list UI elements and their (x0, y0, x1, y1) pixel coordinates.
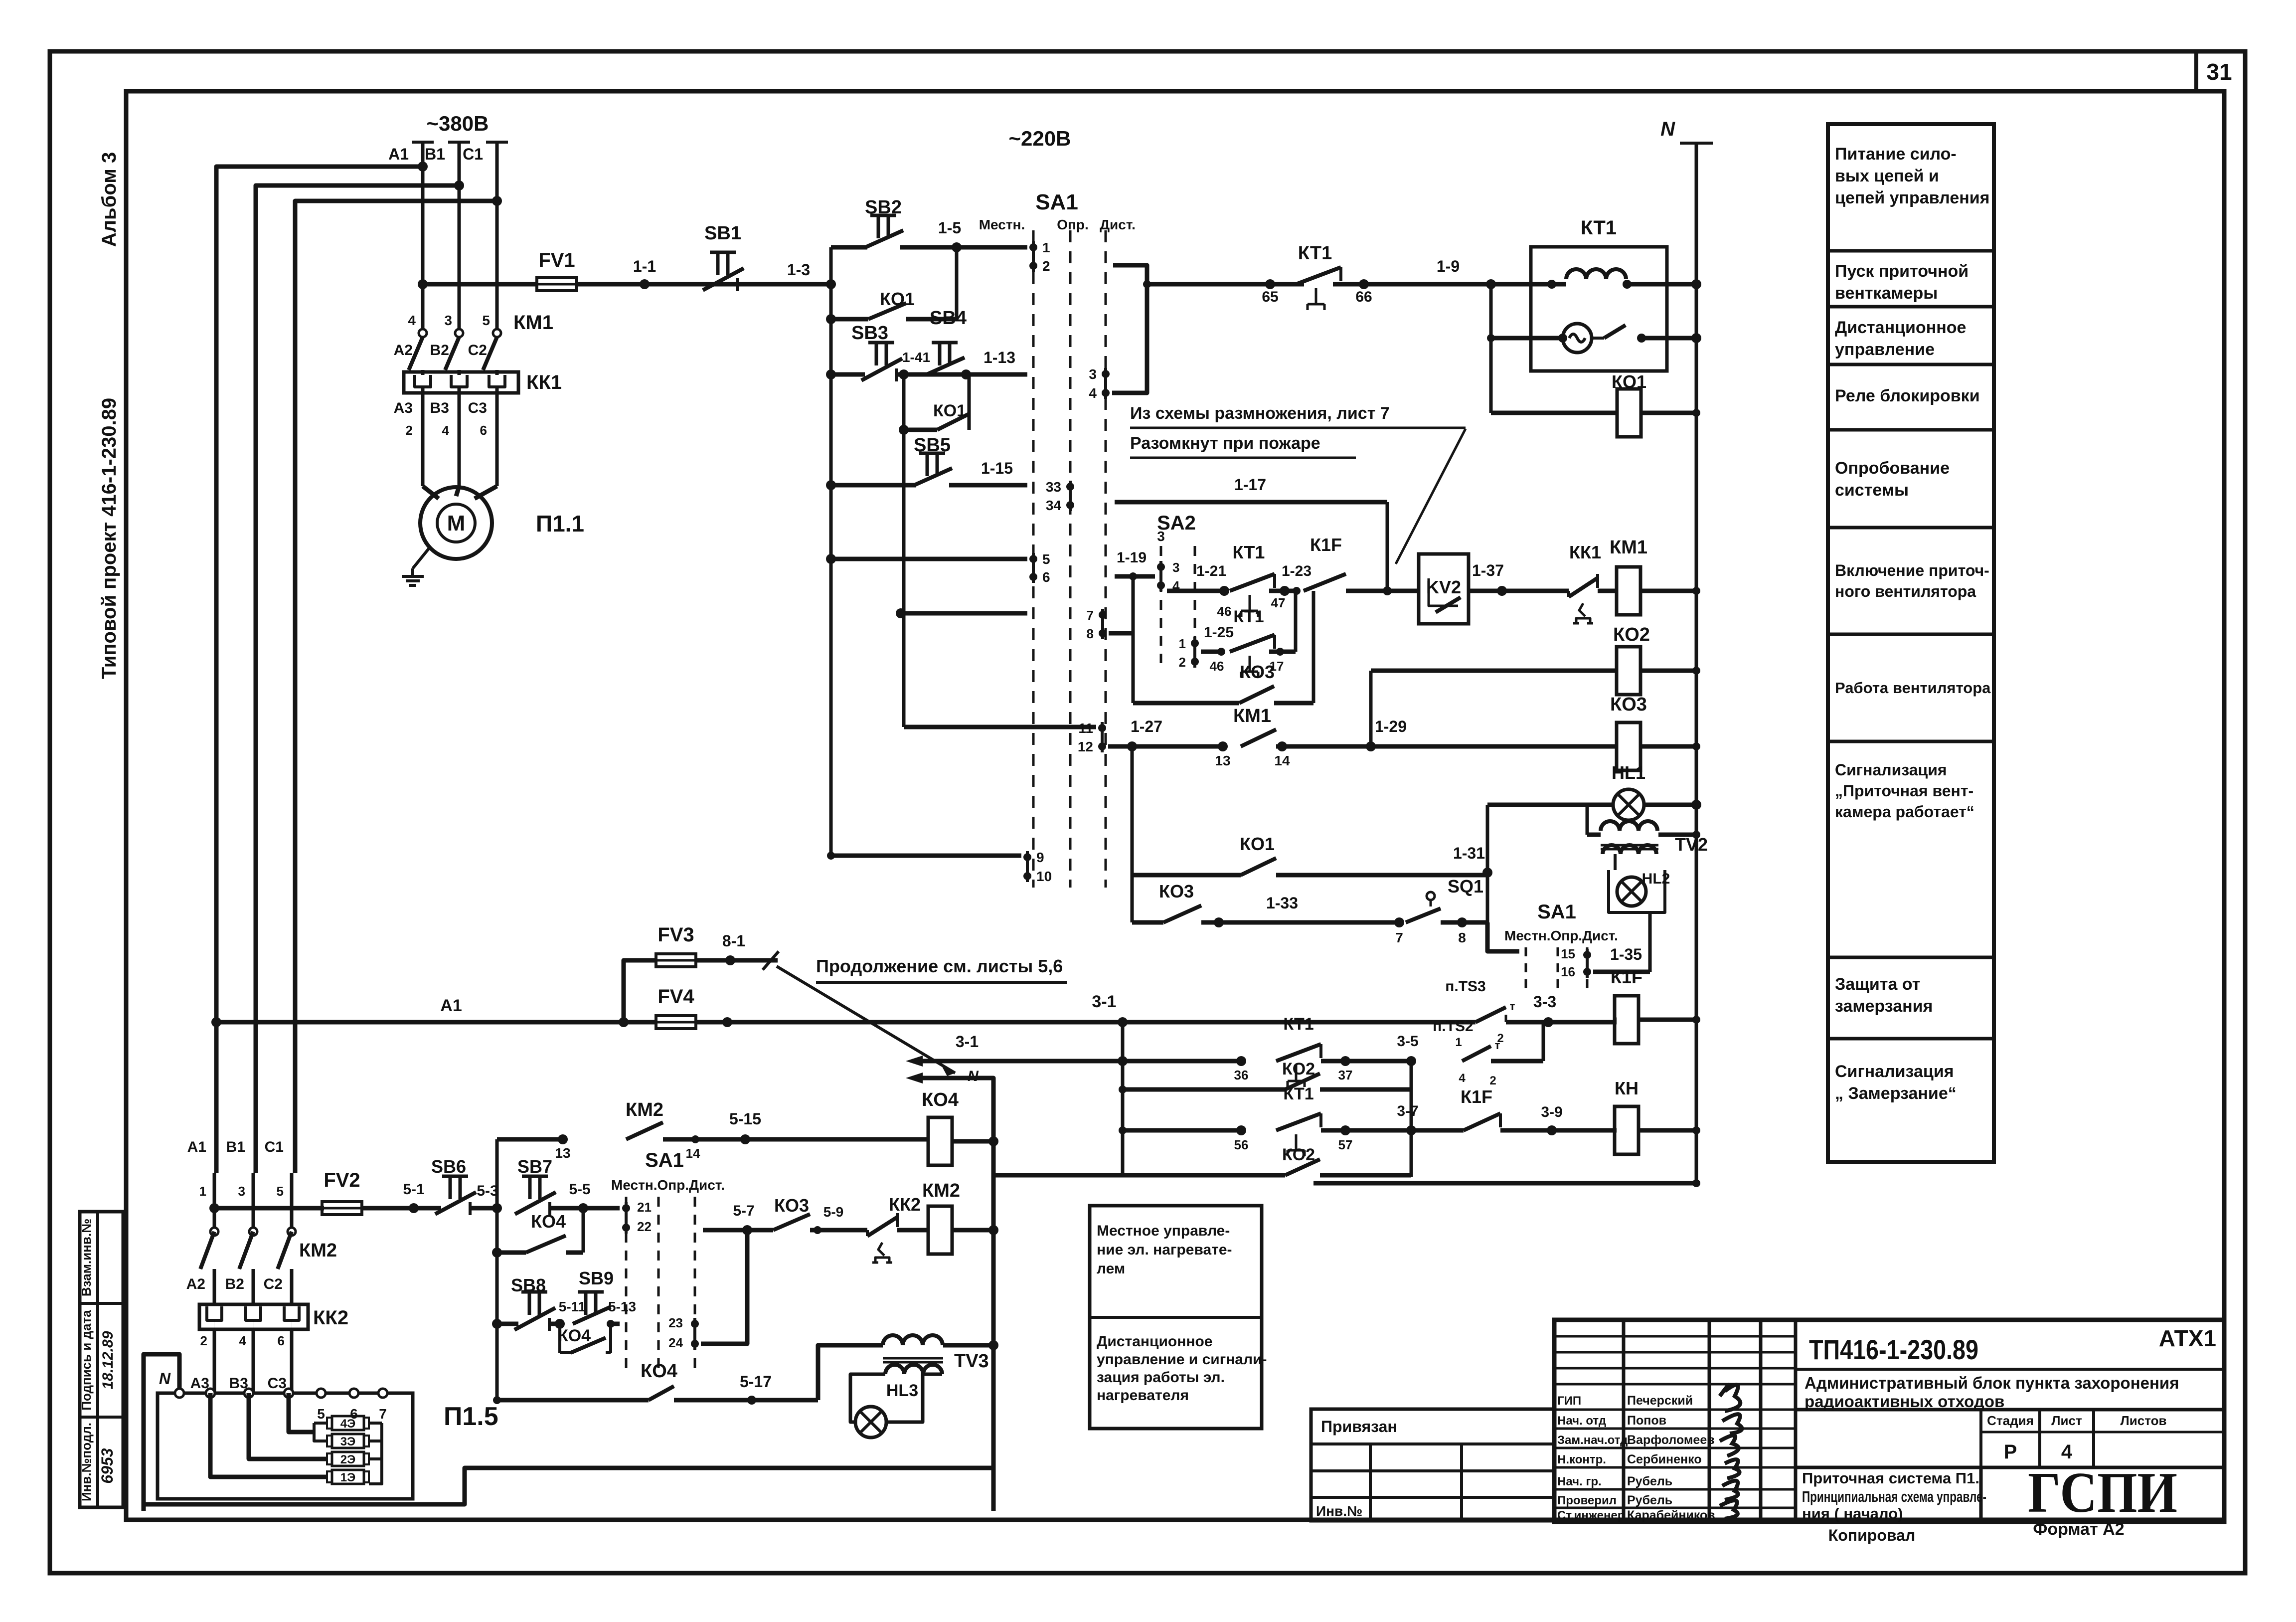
svg-text:13: 13 (555, 1145, 570, 1161)
svg-text:КМ2: КМ2 (626, 1099, 663, 1120)
svg-text:1-19: 1-19 (1117, 549, 1147, 566)
svg-text:вых цепей и: вых цепей и (1835, 167, 1939, 185)
svg-text:КО1: КО1 (880, 289, 915, 309)
svg-text:Дист.: Дист. (1100, 217, 1136, 232)
svg-text:1-9: 1-9 (1437, 257, 1460, 275)
svg-text:К1F: К1F (1611, 967, 1642, 987)
svg-text:ТП416-1-230.89: ТП416-1-230.89 (1809, 1334, 1978, 1365)
svg-text:SА1: SА1 (1035, 190, 1078, 214)
svg-text:5-5: 5-5 (569, 1181, 590, 1198)
svg-text:13: 13 (1215, 753, 1230, 768)
svg-text:5: 5 (1042, 551, 1050, 567)
svg-text:нагревателя: нагревателя (1097, 1387, 1189, 1404)
svg-text:т: т (1510, 1000, 1515, 1013)
svg-text:SВ4: SВ4 (930, 308, 967, 329)
svg-text:TV2: TV2 (1675, 834, 1708, 855)
svg-text:Нач. отд: Нач. отд (1557, 1414, 1606, 1428)
svg-text:3: 3 (444, 313, 452, 328)
svg-text:Опр.: Опр. (1057, 217, 1089, 232)
svg-text:К1F: К1F (1461, 1086, 1492, 1107)
svg-text:КО4: КО4 (641, 1361, 677, 1382)
svg-text:4: 4 (239, 1333, 247, 1348)
svg-text:управление и сигнали-: управление и сигнали- (1097, 1351, 1267, 1368)
svg-text:36: 36 (1234, 1068, 1249, 1082)
svg-text:Подпись и дата: Подпись и дата (79, 1310, 94, 1411)
svg-text:6: 6 (278, 1333, 285, 1348)
svg-text:Карабейников: Карабейников (1627, 1508, 1715, 1522)
svg-text:4: 4 (1089, 385, 1097, 401)
svg-text:венткамеры: венткамеры (1835, 284, 1938, 303)
svg-text:1-17: 1-17 (1234, 476, 1266, 494)
svg-text:1Э: 1Э (340, 1471, 355, 1484)
svg-text:С1: С1 (265, 1139, 284, 1155)
svg-text:1: 1 (1179, 636, 1186, 651)
svg-text:1-13: 1-13 (984, 349, 1015, 366)
svg-text:П1.1: П1.1 (536, 511, 584, 537)
svg-text:КО2: КО2 (1282, 1060, 1315, 1079)
svg-text:п.TS3: п.TS3 (1445, 978, 1485, 995)
svg-text:радиоактивных отходов: радиоактивных отходов (1804, 1392, 2004, 1411)
svg-text:КТ1: КТ1 (1283, 1084, 1313, 1103)
svg-text:8: 8 (1458, 930, 1466, 945)
svg-text:В3: В3 (430, 400, 449, 416)
svg-text:SВ5: SВ5 (914, 435, 951, 456)
svg-text:4: 4 (1459, 1072, 1466, 1085)
svg-text:22: 22 (637, 1219, 652, 1234)
svg-text:КО3: КО3 (1610, 694, 1647, 715)
svg-text:1-35: 1-35 (1610, 945, 1642, 963)
svg-text:А2: А2 (186, 1276, 205, 1292)
svg-text:ния ( начало): ния ( начало) (1802, 1505, 1903, 1522)
svg-text:FV2: FV2 (324, 1169, 360, 1191)
svg-text:1-41: 1-41 (902, 350, 930, 365)
svg-text:Печерский: Печерский (1627, 1394, 1693, 1408)
svg-text:6953: 6953 (98, 1448, 116, 1483)
svg-text:КО3: КО3 (1159, 881, 1194, 901)
svg-text:КТ1: КТ1 (1233, 607, 1264, 626)
svg-text:5: 5 (277, 1184, 284, 1199)
svg-text:Продолжение см. листы 5,6: Продолжение см. листы 5,6 (816, 956, 1063, 976)
svg-text:КТ1: КТ1 (1581, 217, 1617, 239)
svg-text:Копировал: Копировал (1828, 1526, 1916, 1544)
svg-text:А2: А2 (394, 342, 413, 359)
svg-text:Разомкнут при пожаре: Разомкнут при пожаре (1130, 434, 1320, 453)
svg-text:5-15: 5-15 (729, 1110, 761, 1128)
svg-text:31: 31 (2206, 59, 2232, 85)
svg-text:Административный блок пункта з: Административный блок пункта захоронения (1804, 1374, 2179, 1392)
svg-text:Принципиальная схема управле-: Принципиальная схема управле- (1802, 1488, 1986, 1505)
svg-text:12: 12 (1078, 739, 1093, 754)
svg-text:ного вентилятора: ного вентилятора (1835, 582, 1976, 600)
svg-text:А1: А1 (440, 996, 462, 1015)
svg-text:ГСПИ: ГСПИ (2028, 1461, 2177, 1525)
svg-text:Местное управле-: Местное управле- (1097, 1223, 1230, 1239)
svg-text:1-33: 1-33 (1266, 894, 1298, 912)
svg-text:SA1: SA1 (645, 1149, 684, 1171)
svg-text:7: 7 (1395, 930, 1403, 945)
svg-text:КМ2: КМ2 (299, 1240, 337, 1261)
svg-text:камера работает“: камера работает“ (1835, 803, 1974, 821)
svg-text:3Э: 3Э (340, 1435, 355, 1448)
svg-text:3-5: 3-5 (1397, 1033, 1418, 1050)
svg-text:Сигнализация: Сигнализация (1835, 761, 1947, 779)
svg-text:КО4: КО4 (558, 1326, 591, 1345)
svg-text:В2: В2 (225, 1276, 244, 1292)
svg-text:1-3: 1-3 (787, 261, 810, 279)
svg-text:8: 8 (1087, 626, 1094, 641)
svg-text:„ Замерзание“: „ Замерзание“ (1835, 1084, 1957, 1103)
svg-text:6: 6 (1042, 569, 1050, 585)
svg-text:1-5: 1-5 (938, 219, 961, 237)
svg-text:С2: С2 (468, 342, 487, 359)
svg-text:Привязан: Привязан (1321, 1418, 1397, 1436)
svg-text:Рубель: Рубель (1627, 1474, 1672, 1488)
svg-text:46: 46 (1210, 659, 1224, 674)
svg-text:1: 1 (1455, 1036, 1462, 1049)
svg-text:КО2: КО2 (1613, 624, 1650, 645)
svg-text:КК1: КК1 (526, 371, 562, 393)
svg-text:3-3: 3-3 (1533, 993, 1556, 1011)
svg-text:Из схемы размножения, лист 7: Из схемы размножения, лист 7 (1130, 404, 1390, 423)
svg-text:„Приточная вент-: „Приточная вент- (1835, 782, 1973, 800)
svg-text:В2: В2 (430, 342, 449, 359)
svg-text:Зам.нач.отд: Зам.нач.отд (1557, 1434, 1628, 1447)
svg-text:Типовой проект 416-1-230.89: Типовой проект 416-1-230.89 (98, 398, 120, 679)
svg-text:4: 4 (442, 423, 450, 438)
svg-text:АТХ1: АТХ1 (2159, 1325, 2216, 1351)
svg-text:4: 4 (2061, 1441, 2073, 1463)
svg-text:КО4: КО4 (531, 1211, 566, 1232)
svg-text:Формат А2: Формат А2 (2033, 1520, 2124, 1539)
svg-text:37: 37 (1338, 1068, 1353, 1082)
svg-text:SВ6: SВ6 (431, 1156, 466, 1177)
svg-text:КО1: КО1 (1612, 371, 1646, 392)
svg-text:замерзания: замерзания (1835, 997, 1933, 1016)
svg-text:1-31: 1-31 (1453, 844, 1485, 862)
svg-text:11: 11 (1078, 721, 1093, 736)
svg-text:КО1: КО1 (1240, 834, 1275, 854)
svg-text:HL1: HL1 (1612, 762, 1645, 783)
svg-text:5-9: 5-9 (823, 1204, 843, 1220)
svg-text:Варфоломеев: Варфоломеев (1627, 1433, 1715, 1447)
svg-text:KV2: KV2 (1426, 577, 1461, 597)
svg-text:Защита от: Защита от (1835, 975, 1920, 994)
svg-text:Стадия: Стадия (1987, 1413, 2034, 1428)
svg-text:Дистанционное: Дистанционное (1835, 318, 1966, 337)
svg-text:2: 2 (200, 1333, 207, 1348)
svg-text:18.12.89: 18.12.89 (100, 1331, 116, 1389)
svg-text:Н.контр.: Н.контр. (1557, 1453, 1606, 1466)
svg-text:1: 1 (1042, 240, 1050, 255)
svg-text:зация работы эл.: зация работы эл. (1097, 1369, 1225, 1386)
svg-text:15: 15 (1561, 946, 1575, 961)
svg-text:1-21: 1-21 (1196, 563, 1226, 579)
svg-text:6: 6 (480, 423, 487, 438)
svg-text:3: 3 (1157, 529, 1165, 544)
svg-text:КО3: КО3 (774, 1195, 809, 1216)
svg-text:21: 21 (637, 1200, 652, 1215)
svg-text:N: N (1660, 118, 1675, 140)
svg-text:3: 3 (1172, 560, 1179, 575)
svg-text:Питание сило-: Питание сило- (1835, 145, 1957, 164)
svg-text:SВ2: SВ2 (865, 197, 902, 218)
svg-text:Ст.инженер: Ст.инженер (1557, 1509, 1625, 1522)
svg-text:КК2: КК2 (889, 1194, 921, 1215)
svg-text:КО4: КО4 (922, 1089, 959, 1110)
svg-text:С1: С1 (463, 145, 483, 163)
svg-text:23: 23 (668, 1315, 683, 1330)
svg-text:П1.5: П1.5 (444, 1402, 498, 1431)
svg-text:КМ1: КМ1 (1233, 706, 1271, 726)
svg-text:2: 2 (1489, 1074, 1496, 1087)
svg-text:7: 7 (379, 1406, 387, 1422)
svg-text:А3: А3 (394, 400, 413, 416)
svg-text:п.TS2: п.TS2 (1433, 1018, 1473, 1035)
svg-text:КМ1: КМ1 (1610, 537, 1647, 558)
svg-text:66: 66 (1355, 289, 1372, 305)
svg-text:2: 2 (1042, 258, 1050, 274)
svg-text:С3: С3 (268, 1375, 287, 1392)
svg-text:4Э: 4Э (340, 1417, 355, 1431)
svg-text:8-1: 8-1 (722, 932, 745, 950)
svg-text:FV4: FV4 (657, 986, 694, 1008)
svg-text:2: 2 (1179, 655, 1186, 670)
svg-text:SQ1: SQ1 (1448, 876, 1483, 897)
svg-text:1-25: 1-25 (1204, 624, 1234, 641)
svg-text:FV3: FV3 (657, 924, 694, 946)
svg-text:ние эл. нагревате-: ние эл. нагревате- (1097, 1242, 1232, 1258)
svg-text:Инв.№: Инв.№ (1316, 1503, 1362, 1519)
svg-text:Листов: Листов (2121, 1413, 2167, 1428)
svg-text:КТ1: КТ1 (1298, 243, 1332, 264)
svg-text:Реле блокировки: Реле блокировки (1835, 386, 1980, 405)
svg-text:КК2: КК2 (313, 1307, 348, 1329)
svg-text:Местн.Опр.Дист.: Местн.Опр.Дист. (1504, 928, 1618, 943)
svg-text:3: 3 (1089, 366, 1097, 382)
svg-text:5: 5 (482, 313, 490, 328)
svg-text:Работа вентилятора: Работа вентилятора (1835, 679, 1991, 697)
svg-text:КО1: КО1 (933, 401, 966, 420)
svg-text:9: 9 (1036, 850, 1044, 865)
svg-text:16: 16 (1561, 964, 1575, 979)
svg-text:SВ1: SВ1 (704, 223, 741, 244)
svg-text:Местн.Опр.Дист.: Местн.Опр.Дист. (611, 1177, 725, 1193)
svg-text:4: 4 (408, 313, 416, 328)
svg-text:14: 14 (686, 1146, 700, 1161)
svg-text:TV3: TV3 (954, 1351, 989, 1372)
svg-text:В1: В1 (425, 145, 445, 163)
svg-text:24: 24 (668, 1335, 683, 1350)
svg-text:14: 14 (1274, 753, 1290, 768)
svg-text:5-1: 5-1 (403, 1181, 424, 1198)
svg-text:57: 57 (1338, 1137, 1353, 1152)
svg-text:33: 33 (1046, 479, 1061, 495)
svg-text:Взам.инв.№: Взам.инв.№ (79, 1219, 94, 1296)
svg-text:С3: С3 (468, 400, 487, 416)
svg-text:5: 5 (317, 1406, 325, 1422)
svg-text:КН: КН (1615, 1078, 1639, 1098)
svg-text:Местн.: Местн. (979, 217, 1025, 232)
svg-text:1-37: 1-37 (1472, 561, 1504, 579)
svg-text:5-7: 5-7 (733, 1203, 754, 1219)
svg-text:7: 7 (1087, 608, 1094, 623)
svg-text:N: N (159, 1370, 171, 1388)
svg-text:5-13: 5-13 (608, 1299, 636, 1314)
svg-text:Дистанционное: Дистанционное (1097, 1333, 1212, 1350)
svg-text:SВ8: SВ8 (511, 1275, 546, 1295)
svg-text:С2: С2 (264, 1276, 283, 1292)
svg-text:3-1: 3-1 (1092, 992, 1116, 1011)
svg-text:Попов: Попов (1627, 1414, 1666, 1428)
svg-text:КМ2: КМ2 (922, 1180, 960, 1201)
svg-text:SВ7: SВ7 (517, 1156, 552, 1177)
svg-text:Приточная система П1.: Приточная система П1. (1802, 1469, 1979, 1487)
svg-text:т: т (1495, 1039, 1500, 1052)
svg-text:HL3: HL3 (886, 1381, 918, 1400)
svg-text:3-1: 3-1 (956, 1033, 979, 1051)
svg-text:10: 10 (1036, 869, 1052, 884)
svg-text:Нач. гр.: Нач. гр. (1557, 1475, 1602, 1488)
svg-text:5-11: 5-11 (559, 1299, 586, 1314)
svg-text:А1: А1 (187, 1139, 206, 1155)
svg-text:А1: А1 (388, 145, 409, 163)
svg-text:Проверил: Проверил (1557, 1494, 1617, 1507)
svg-text:FV1: FV1 (538, 249, 575, 271)
svg-text:Сербиненко: Сербиненко (1627, 1452, 1702, 1466)
svg-text:Альбом 3: Альбом 3 (98, 152, 120, 247)
svg-text:Рубель: Рубель (1627, 1493, 1672, 1507)
svg-text:2Э: 2Э (340, 1453, 355, 1466)
svg-text:Р: Р (2004, 1441, 2017, 1463)
svg-text:КТ1: КТ1 (1233, 542, 1265, 562)
svg-text:56: 56 (1234, 1137, 1249, 1152)
svg-text:46: 46 (1217, 604, 1232, 619)
svg-text:системы: системы (1835, 481, 1909, 500)
svg-text:34: 34 (1046, 498, 1062, 513)
svg-text:65: 65 (1262, 289, 1278, 305)
svg-text:2: 2 (406, 423, 413, 438)
svg-text:ГИП: ГИП (1557, 1394, 1581, 1408)
svg-text:К1F: К1F (1310, 535, 1342, 555)
svg-text:1-23: 1-23 (1282, 563, 1312, 579)
svg-text:КО3: КО3 (1240, 662, 1275, 682)
svg-text:5-17: 5-17 (740, 1373, 772, 1391)
svg-text:Включение приточ-: Включение приточ- (1835, 561, 1989, 579)
svg-text:1: 1 (199, 1184, 206, 1199)
svg-text:SВ3: SВ3 (851, 323, 888, 344)
svg-text:Сигнализация: Сигнализация (1835, 1062, 1954, 1081)
svg-text:управление: управление (1835, 340, 1935, 359)
svg-text:КТ1: КТ1 (1283, 1015, 1313, 1034)
svg-text:1-29: 1-29 (1375, 718, 1407, 735)
svg-text:цепей управления: цепей управления (1835, 188, 1990, 207)
svg-text:SA1: SA1 (1537, 901, 1576, 923)
svg-text:КМ1: КМ1 (513, 312, 553, 334)
svg-text:КО2: КО2 (1282, 1145, 1315, 1164)
svg-text:1-27: 1-27 (1131, 718, 1162, 735)
svg-text:лем: лем (1097, 1261, 1125, 1277)
svg-text:Пуск приточной: Пуск приточной (1835, 262, 1968, 281)
svg-text:~220В: ~220В (1009, 127, 1071, 150)
svg-text:Опробование: Опробование (1835, 459, 1950, 478)
svg-text:47: 47 (1271, 595, 1286, 610)
svg-text:HL2: HL2 (1642, 871, 1670, 887)
svg-text:Инв.№подл.: Инв.№подл. (79, 1423, 94, 1501)
svg-text:3-9: 3-9 (1541, 1104, 1562, 1120)
svg-text:М: М (447, 511, 466, 536)
svg-text:~380В: ~380В (427, 112, 489, 135)
svg-text:КК1: КК1 (1569, 542, 1601, 562)
svg-text:В1: В1 (226, 1139, 245, 1155)
svg-text:Лист: Лист (2051, 1413, 2082, 1428)
svg-text:5-3: 5-3 (477, 1183, 498, 1199)
svg-text:1-1: 1-1 (633, 257, 656, 275)
svg-text:SВ9: SВ9 (579, 1268, 614, 1288)
svg-text:3-7: 3-7 (1397, 1103, 1418, 1119)
svg-text:1-15: 1-15 (981, 459, 1013, 477)
svg-text:3: 3 (238, 1184, 245, 1199)
